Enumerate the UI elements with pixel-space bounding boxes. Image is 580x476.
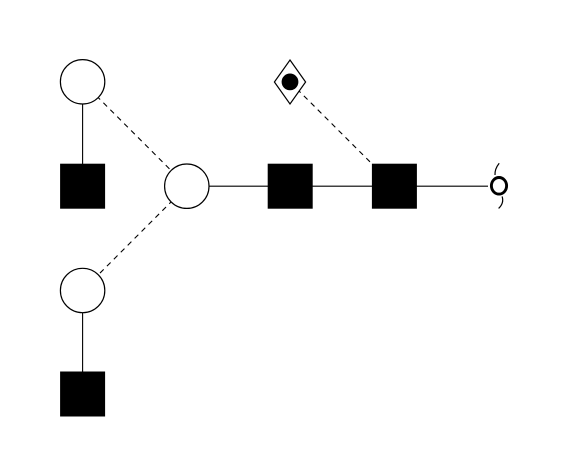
wire: solid bond top-left circle to its square	[82, 82, 84, 186]
reducing end: upper wavy arc	[495, 163, 499, 175]
wire: solid bond center circle to square F	[187, 185, 290, 187]
wire: dashed bond top-left circle to center circle	[83, 82, 187, 186]
node: chain filled square G	[372, 164, 417, 209]
node: chain filled square F	[268, 164, 313, 209]
wire: solid bond square G to reducing-end circle	[394, 185, 488, 187]
node: top-left open circle	[60, 60, 104, 104]
wire: dashed bond diamond to square G	[290, 82, 394, 186]
wire: solid bond lower-left circle to bottom square	[82, 291, 84, 395]
node: lower-left open circle	[60, 268, 104, 312]
wire: solid bond square F to square G	[290, 185, 394, 187]
node: black dot inside diamond	[282, 74, 299, 91]
node: bottom filled square	[60, 372, 105, 417]
reducing end: thick small circle	[491, 178, 506, 195]
node: top-left filled square	[60, 164, 105, 209]
wire: dashed bond center circle to lower-left circle	[83, 186, 187, 290]
node: center open circle	[165, 164, 209, 208]
reducing end: lower wavy arc	[499, 196, 503, 208]
node: diamond outline	[274, 60, 305, 104]
